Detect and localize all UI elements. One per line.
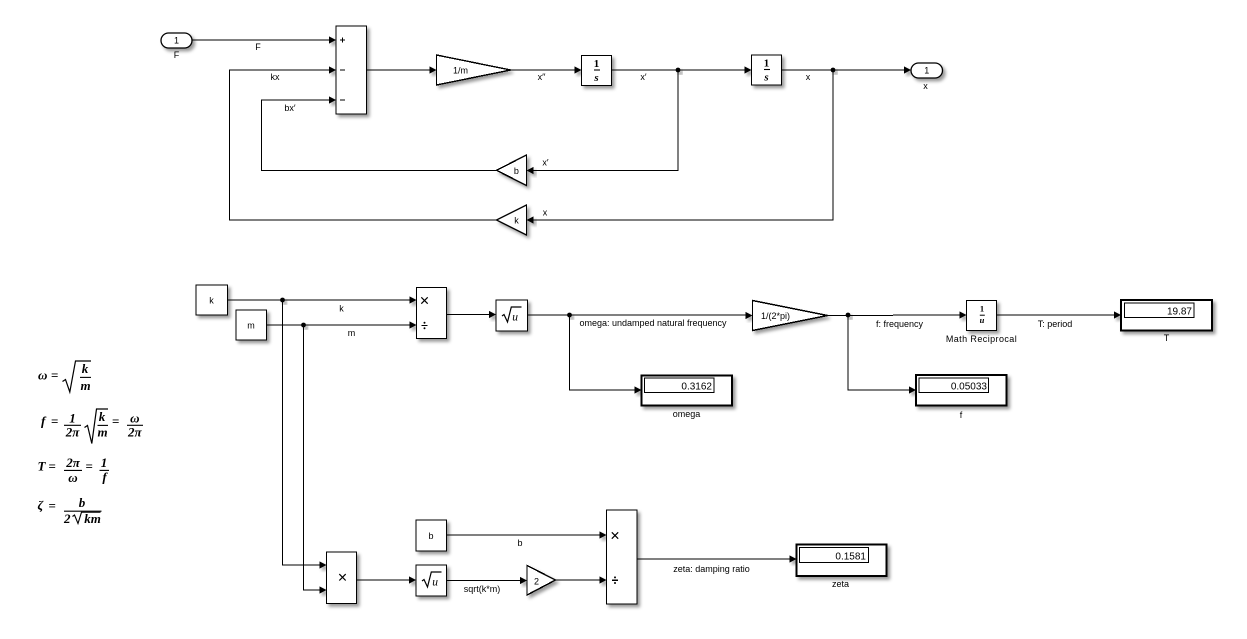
wire x branch down to gain k	[527, 70, 834, 224]
svg-text:b: b	[79, 495, 86, 510]
integrator 1	[582, 56, 612, 86]
label m on wire	[348, 328, 356, 338]
svg-text:b: b	[514, 166, 519, 176]
svg-text:19.87: 19.87	[1167, 306, 1192, 317]
junction f	[846, 313, 851, 318]
svg-text:m: m	[348, 328, 356, 338]
svg-text:b: b	[517, 538, 522, 548]
label f: frequency	[876, 319, 924, 329]
svg-text:T: T	[38, 459, 47, 474]
svg-text:=: =	[51, 414, 58, 429]
svg-text:sqrt(k*m): sqrt(k*m)	[464, 584, 501, 594]
svg-text:u: u	[980, 315, 985, 325]
svg-text:1: 1	[174, 36, 179, 46]
constant m	[236, 310, 267, 340]
label x'	[640, 72, 647, 82]
svg-text:x′′: x′′	[538, 72, 546, 82]
svg-text:0.05033: 0.05033	[951, 381, 988, 392]
equation f = 1/(2pi) sqrt(k/m) = omega/(2pi)	[41, 409, 143, 444]
label f	[960, 410, 963, 420]
wire m junction down to multiply	[304, 325, 327, 594]
svg-text:k: k	[99, 409, 106, 424]
outport x	[911, 63, 943, 78]
svg-text:=: =	[51, 368, 58, 383]
gain 1/(2*pi)	[753, 301, 828, 331]
label k on wire	[339, 304, 344, 314]
wire f branch to display f	[848, 315, 916, 394]
svg-text:u: u	[432, 576, 438, 588]
svg-text:2π: 2π	[65, 455, 81, 470]
svg-text:Math Reciprocal: Math Reciprocal	[946, 334, 1017, 344]
svg-text:km: km	[84, 511, 101, 526]
svg-text:0.1581: 0.1581	[835, 551, 866, 562]
svg-text:1/m: 1/m	[453, 65, 468, 75]
svg-text:s: s	[593, 72, 598, 84]
display omega	[642, 376, 733, 406]
constant k	[196, 285, 228, 315]
junction omega	[567, 313, 572, 318]
svg-text:kx: kx	[271, 72, 281, 82]
constant b	[416, 520, 447, 551]
wire sum to gain 1/m	[367, 66, 437, 73]
svg-text:zeta: damping ratio: zeta: damping ratio	[673, 564, 750, 574]
wire x' branch down to gain b	[527, 70, 679, 174]
gain k	[497, 205, 527, 235]
svg-text:x′: x′	[640, 72, 647, 82]
junction x'	[676, 68, 681, 73]
junction x	[831, 68, 836, 73]
svg-text:0.3162: 0.3162	[681, 381, 712, 392]
integrator 2	[752, 55, 782, 85]
svg-text:k: k	[339, 304, 344, 314]
svg-text:s: s	[763, 72, 768, 84]
label x at gain k	[543, 208, 548, 218]
outport x name label	[923, 81, 928, 91]
svg-text:m: m	[247, 321, 255, 331]
wire b const to divide2	[447, 531, 607, 538]
svg-text:2: 2	[63, 511, 71, 526]
svg-text:f: frequency: f: frequency	[876, 319, 924, 329]
label b on wire	[517, 538, 522, 548]
svg-text:omega: omega	[673, 409, 701, 419]
wire integrator 1 to integrator 2	[612, 66, 752, 73]
inport F	[161, 33, 192, 48]
label F on wire	[255, 42, 261, 52]
sqrt block 1	[496, 300, 528, 331]
label zeta: damping ratio	[673, 564, 750, 574]
divide block 2	[607, 510, 638, 604]
svg-text:m: m	[80, 378, 90, 393]
svg-text:x: x	[923, 81, 928, 91]
wire gain 1/(2*pi) to reciprocal	[828, 311, 967, 318]
svg-text:ω: ω	[130, 411, 139, 426]
label omega: undamped natural frequency	[579, 318, 727, 328]
svg-text:k: k	[209, 296, 214, 306]
wire divide2 to display zeta	[637, 555, 797, 562]
svg-text:u: u	[512, 311, 518, 323]
label bx'	[284, 103, 296, 113]
label omega	[673, 409, 701, 419]
label sqrt(k*m)	[464, 584, 501, 594]
multiply block k*m	[327, 552, 357, 604]
svg-text:1: 1	[924, 66, 929, 76]
wire m const to divide	[267, 321, 417, 328]
svg-text:k: k	[82, 361, 89, 376]
sum block	[336, 26, 367, 114]
math reciprocal block	[967, 301, 997, 331]
svg-text:bx′: bx′	[284, 103, 296, 113]
label T: period	[1038, 319, 1073, 329]
svg-text:x: x	[806, 72, 811, 82]
svg-text:=: =	[49, 459, 56, 474]
label kx	[271, 72, 281, 82]
svg-text:b: b	[428, 531, 433, 541]
svg-text:F: F	[174, 50, 180, 60]
wire k const to divide	[228, 296, 417, 303]
label zeta	[832, 579, 849, 589]
equation T = 2pi/omega = 1/f	[38, 455, 110, 485]
label T	[1164, 333, 1170, 343]
wire k junction down to multiply	[283, 300, 327, 569]
svg-text:2π: 2π	[127, 425, 143, 440]
wire sqrt2 to gain 2	[447, 577, 528, 584]
svg-text:=: =	[112, 414, 119, 429]
label x''	[538, 72, 546, 82]
display T	[1121, 300, 1212, 331]
wire sqrt to gain 1/(2*pi)	[528, 312, 753, 319]
svg-text:1: 1	[980, 304, 984, 314]
svg-text:=: =	[86, 459, 93, 474]
gain b	[497, 155, 527, 186]
svg-text:x′: x′	[542, 158, 549, 168]
wire divide to sqrt	[447, 311, 497, 318]
label Math Reciprocal	[946, 334, 1017, 344]
svg-text:T: period: T: period	[1038, 319, 1073, 329]
svg-text:omega: undamped natural freque: omega: undamped natural frequency	[579, 318, 727, 328]
svg-text:ω: ω	[68, 470, 77, 485]
label x' at gain b	[542, 158, 549, 168]
svg-text:1: 1	[69, 411, 76, 426]
svg-text:1: 1	[594, 58, 600, 70]
svg-text:2: 2	[534, 576, 539, 586]
divide block k/m	[417, 288, 447, 339]
junction k	[280, 298, 285, 303]
wire gain 2 to divide2	[556, 576, 607, 583]
svg-text:zeta: zeta	[832, 579, 849, 589]
display f	[916, 375, 1007, 406]
svg-text:x: x	[543, 208, 548, 218]
wire integrator 2 to outport	[782, 66, 912, 73]
svg-text:2π: 2π	[65, 425, 81, 440]
gain 2	[527, 566, 556, 596]
wire F input to sum	[192, 36, 336, 43]
svg-text:1/(2*pi): 1/(2*pi)	[761, 311, 790, 321]
svg-text:ω: ω	[38, 368, 47, 383]
equation zeta = b/(2 sqrt(km))	[38, 495, 102, 526]
svg-text:1: 1	[101, 455, 108, 470]
wire multiply to sqrt2	[357, 576, 417, 583]
svg-text:k: k	[514, 216, 519, 226]
wire gain b output to sum input 3	[262, 96, 497, 170]
wire gain k output to sum input 2	[230, 66, 497, 220]
equation omega = sqrt(k/m)	[38, 361, 91, 393]
gain 1/m	[437, 55, 511, 85]
junction m	[301, 323, 306, 328]
svg-text:m: m	[97, 424, 107, 439]
sqrt block 2	[416, 565, 447, 596]
svg-text:F: F	[255, 42, 261, 52]
svg-text:=: =	[49, 498, 56, 513]
display zeta	[797, 545, 887, 577]
svg-text:1: 1	[764, 58, 770, 70]
wire omega branch to display omega	[570, 315, 642, 394]
wire gain 1/m to integrator 1	[511, 66, 582, 73]
label x	[806, 72, 811, 82]
inport F name label	[174, 50, 180, 60]
svg-text:T: T	[1164, 333, 1170, 343]
wire reciprocal to display T	[997, 311, 1122, 318]
